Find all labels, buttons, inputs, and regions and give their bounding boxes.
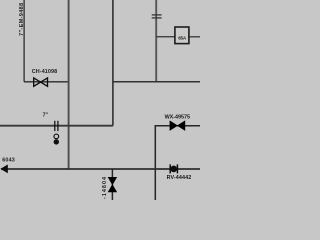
- wire: horizontal pipe at y=125.6 from x=155 to right edge: [155, 125, 200, 127]
- line break symbol (double bars) on x=156 pipe: [152, 15, 162, 18]
- svg-text:J-14804: J-14804: [102, 177, 108, 200]
- svg-text:6043: 6043: [2, 158, 15, 164]
- label: line tag 7"-EM-9488 (rotated): [19, 3, 25, 36]
- label WX-49575: [165, 114, 190, 120]
- wire: branch to spec box at y=36.8: [156, 36, 200, 38]
- label CH-41098: [32, 69, 57, 75]
- wire: vertical pipe line at x=68.6 (full height to y=169): [68, 0, 70, 169]
- label 7" size tag: [43, 112, 49, 118]
- spectacle blind open circle: [54, 134, 59, 139]
- check valve RV-44442 (bar-ball-bar): [170, 164, 177, 173]
- svg-text:7": 7": [43, 112, 49, 118]
- spectacle blind bars on y=125.6 pipe: [55, 121, 58, 131]
- label J-14804 (rotated line tag): [102, 177, 108, 203]
- wire: horizontal branch at y=81.7 from x=24 to x=69: [24, 81, 69, 83]
- label 6043: [2, 158, 15, 164]
- spec box 65A: [175, 27, 189, 44]
- svg-text:65A: 65A: [178, 35, 187, 40]
- svg-text:7"-EM-9488: 7"-EM-9488: [19, 3, 25, 36]
- wire: vertical pipe line at x=112.9 (top to y=125.6): [112, 0, 114, 126]
- spectacle blind filled circle: [54, 139, 59, 144]
- off-page arrow (left) on main pipe: [0, 165, 7, 174]
- svg-text:CH-41098: CH-41098: [32, 69, 57, 75]
- valve CH-41098 (open gate valve bowtie): [34, 78, 48, 86]
- wire: vertical pipe at x=155.3 from corner y=125.6 down to bottom: [154, 125, 156, 200]
- label RV-44442: [167, 175, 192, 181]
- wire: main horizontal pipe at y=168.9 full width: [1, 168, 200, 170]
- wire: vertical pipe line at x=156.2 (top to y=81.7): [155, 0, 157, 82]
- wire: vertical drop at x=112.4 from main pipe to bottom: [111, 169, 113, 200]
- valve WX-49575 (closed/filled bowtie): [170, 121, 185, 130]
- valve on vertical drop (closed/filled bowtie, vertical): [108, 177, 116, 192]
- wire: horizontal pipe at y=81.7 from x=113 to right edge: [113, 81, 200, 83]
- svg-text:WX-49575: WX-49575: [165, 114, 190, 120]
- svg-text:RV-44442: RV-44442: [167, 175, 192, 181]
- wire: vertical pipe line at x=24 (top-left): [23, 0, 25, 82]
- wire: horizontal pipe at y=125.6 from left edge to x=113: [0, 125, 113, 127]
